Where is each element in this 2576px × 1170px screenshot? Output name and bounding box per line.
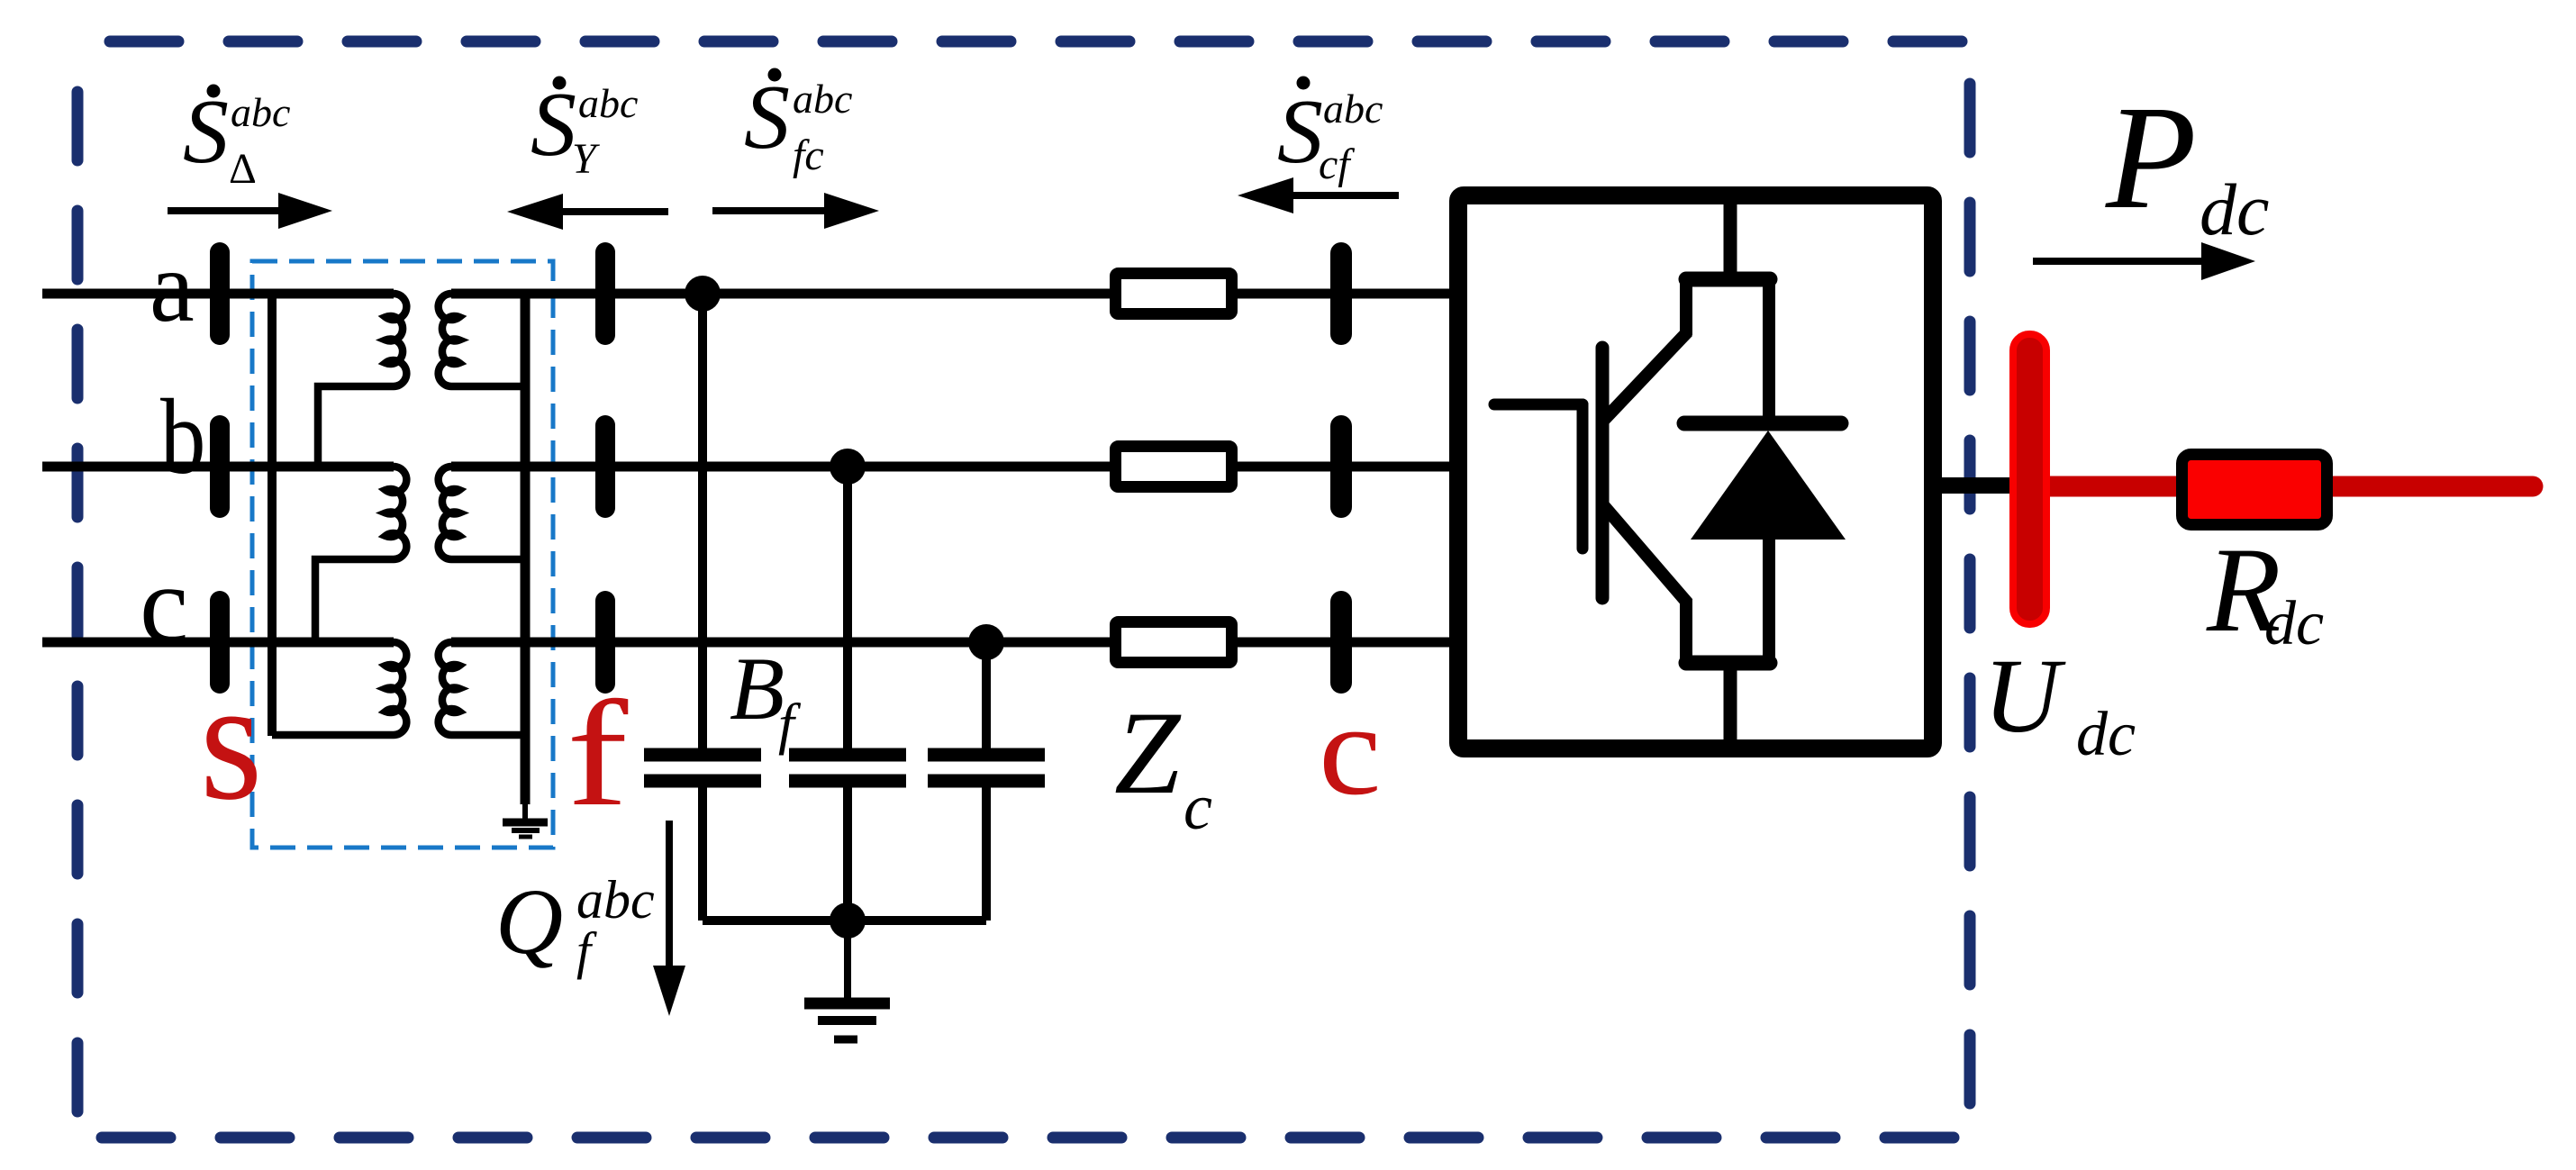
- svg-text:c: c: [140, 544, 188, 666]
- svg-text:S: S: [1277, 81, 1323, 183]
- svg-text:B: B: [730, 639, 785, 739]
- svg-text:S: S: [531, 74, 576, 176]
- svg-text:b: b: [160, 376, 205, 496]
- svg-text:abc: abc: [793, 76, 852, 122]
- svg-text:S: S: [183, 81, 229, 183]
- svg-text:c: c: [1184, 771, 1212, 843]
- svg-text:P: P: [2105, 75, 2197, 240]
- svg-text:U: U: [1983, 637, 2066, 755]
- svg-text:dc: dc: [2200, 168, 2269, 250]
- svg-text:cf: cf: [1319, 141, 1355, 188]
- svg-text:Y: Y: [572, 135, 600, 183]
- svg-text:dc: dc: [2076, 700, 2136, 769]
- svg-text:Δ: Δ: [229, 145, 257, 193]
- svg-text:Q: Q: [495, 870, 563, 974]
- svg-text:a: a: [150, 231, 195, 343]
- svg-text:fc: fc: [793, 132, 824, 179]
- svg-text:f: f: [567, 669, 629, 837]
- svg-text:c: c: [1319, 677, 1382, 821]
- svg-text:abc: abc: [231, 89, 290, 135]
- svg-text:s: s: [200, 645, 262, 837]
- svg-text:S: S: [744, 67, 790, 168]
- svg-text:abc: abc: [578, 80, 638, 126]
- svg-text:Z: Z: [1114, 686, 1182, 819]
- svg-text:abc: abc: [1323, 86, 1383, 132]
- svg-text:dc: dc: [2264, 589, 2324, 658]
